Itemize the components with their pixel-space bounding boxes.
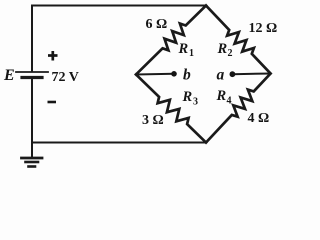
node a dot bbox=[230, 71, 236, 77]
ground bar 3 bbox=[29, 165, 36, 168]
svg-text:E: E bbox=[3, 67, 15, 84]
node b dot bbox=[171, 71, 177, 77]
resistor R3 zigzag bbox=[136, 75, 206, 143]
ground bar 2 bbox=[26, 161, 39, 164]
svg-text:4 Ω: 4 Ω bbox=[248, 111, 270, 126]
wire top bbox=[32, 5, 206, 7]
svg-text:12 Ω: 12 Ω bbox=[249, 21, 278, 36]
ground bar 1 bbox=[22, 157, 43, 160]
svg-text:6 Ω: 6 Ω bbox=[146, 17, 168, 32]
wire bottom bbox=[32, 142, 206, 144]
wire left vertical lower bbox=[31, 79, 33, 157]
svg-text:2: 2 bbox=[228, 48, 233, 59]
battery minus sign bbox=[48, 101, 57, 104]
svg-text:R: R bbox=[217, 41, 228, 57]
resistor R2 zigzag bbox=[206, 6, 271, 74]
battery E positive plate bbox=[16, 71, 48, 73]
battery E negative plate bbox=[22, 76, 42, 79]
svg-text:3: 3 bbox=[193, 97, 198, 108]
svg-text:R: R bbox=[216, 88, 227, 104]
svg-text:b: b bbox=[183, 67, 191, 84]
svg-text:a: a bbox=[217, 67, 225, 84]
svg-text:R: R bbox=[178, 41, 189, 57]
svg-text:R: R bbox=[182, 89, 193, 105]
resistor R4 zigzag bbox=[206, 74, 271, 143]
wire node b stub bbox=[136, 73, 173, 76]
svg-text:72 V: 72 V bbox=[52, 70, 79, 85]
wire node a stub bbox=[233, 73, 271, 76]
resistor R1 zigzag bbox=[136, 6, 206, 75]
svg-text:1: 1 bbox=[189, 48, 194, 59]
battery plus sign bbox=[48, 51, 58, 61]
svg-text:3 Ω: 3 Ω bbox=[142, 113, 164, 128]
wire left vertical upper bbox=[31, 6, 33, 72]
svg-text:4: 4 bbox=[227, 96, 232, 107]
